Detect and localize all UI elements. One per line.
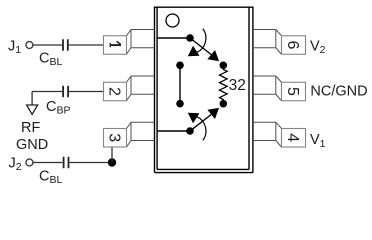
svg-text:4: 4 xyxy=(284,133,301,142)
pin 6 lead xyxy=(253,30,282,55)
svg-text:2: 2 xyxy=(106,87,123,96)
wire C_BL to pin 1 xyxy=(69,44,104,46)
svg-text:CBL: CBL xyxy=(39,51,62,69)
node J1 xyxy=(8,38,33,56)
svg-text:J2: J2 xyxy=(9,156,22,174)
svg-text:V1: V1 xyxy=(310,132,326,150)
resistor 32 ohm xyxy=(220,65,228,103)
wire J1 to C_BL xyxy=(33,44,62,46)
junction dot below pin 3 xyxy=(108,158,116,166)
wire pin 1 into switch xyxy=(157,37,190,39)
wire pin 3 into switch xyxy=(157,130,190,132)
node: resistor top xyxy=(220,62,228,70)
top switch throw arc xyxy=(197,29,206,53)
node: bottom switch common xyxy=(186,127,194,135)
IC body U1 xyxy=(154,7,254,172)
wire J2 to C_BL xyxy=(33,162,63,164)
wire junction to pin 3 xyxy=(111,147,113,163)
RF ground symbol xyxy=(27,105,38,114)
svg-text:GND: GND xyxy=(16,137,48,153)
wire through-path xyxy=(179,65,181,103)
node J2 xyxy=(9,156,33,174)
pin 1 number xyxy=(110,41,121,47)
wire C_BL to junction xyxy=(70,162,113,164)
node: top switch common xyxy=(186,34,194,42)
pin 3 lead xyxy=(127,122,155,147)
pin 1 indicator circle xyxy=(166,14,179,27)
pin 5 lead xyxy=(253,76,282,101)
bottom switch arc arrowhead xyxy=(189,113,199,122)
svg-text:RF: RF xyxy=(21,120,40,136)
capacitor C_BL (top) xyxy=(39,39,68,68)
top switch arm arrowhead xyxy=(208,51,218,60)
svg-text:CBP: CBP xyxy=(46,99,71,117)
bottom switch arm to resistor xyxy=(190,110,217,131)
label RF GND xyxy=(16,120,48,153)
node: resistor bottom xyxy=(220,100,228,108)
svg-text:NC/GND: NC/GND xyxy=(310,84,367,100)
pin 2 lead xyxy=(127,76,155,101)
bottom switch arm arrowhead xyxy=(208,109,218,118)
bottom switch throw arc xyxy=(197,116,206,140)
capacitor C_BL (bottom) xyxy=(39,157,69,186)
wire pin 2 to C_BP xyxy=(32,92,103,106)
pin 4 lead xyxy=(253,122,282,147)
svg-text:6: 6 xyxy=(284,41,301,50)
top switch arc arrowhead xyxy=(189,47,199,56)
node: through-path top xyxy=(176,62,184,70)
svg-text:5: 5 xyxy=(284,87,301,96)
svg-text:3: 3 xyxy=(106,133,123,142)
capacitor C_BP xyxy=(46,86,71,117)
svg-text:J1: J1 xyxy=(8,38,21,56)
top switch arm to resistor xyxy=(190,38,217,59)
pin 1 lead xyxy=(127,30,155,55)
svg-text:V2: V2 xyxy=(310,38,326,56)
svg-text:32: 32 xyxy=(229,77,246,94)
svg-text:CBL: CBL xyxy=(39,168,62,184)
node: through-path bottom xyxy=(176,100,184,108)
